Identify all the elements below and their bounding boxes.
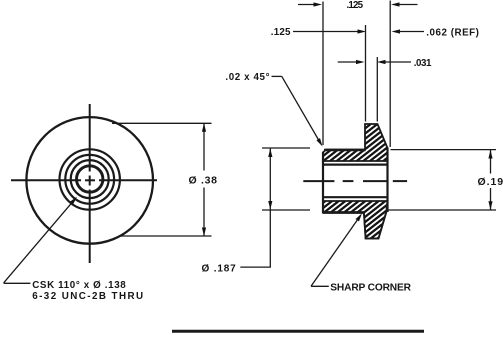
extension line E1 (hub left face) — [322, 2, 324, 146]
Ø.187 bottom extension line — [262, 209, 310, 211]
dimension row3 .031 right arrow+line — [377, 60, 386, 64]
chamfer leader arrowhead — [316, 138, 322, 146]
Ø.19 arrowheads — [488, 150, 492, 159]
svg-text:.031: .031 — [414, 58, 432, 69]
horizontal centerline of front view — [11, 179, 157, 181]
lower flange outline emphasize — [364, 212, 386, 239]
svg-text:.125: .125 — [347, 0, 364, 11]
Ø.38 dimension line — [203, 123, 205, 236]
bottom rule — [172, 330, 424, 333]
svg-text:Ø .187: Ø .187 — [202, 264, 237, 275]
hub left end face — [322, 152, 324, 214]
hatched upper cross-section (flange stem + band) — [323, 124, 388, 161]
Ø.187 arrowheads — [268, 149, 272, 158]
Ø.19 dimension line — [490, 150, 492, 210]
circle D bold (thread minor) — [77, 166, 103, 192]
outer circle (flange OD) — [26, 117, 153, 244]
hub top outer line — [324, 149, 366, 151]
sharp corner leader line — [311, 216, 360, 286]
svg-text:6-32 UNC-2B THRU: 6-32 UNC-2B THRU — [32, 291, 144, 302]
thread line lower B' — [323, 196, 388, 198]
svg-text:CSK 110° x Ø .138: CSK 110° x Ø .138 — [32, 280, 126, 291]
Ø.38 top extension line — [112, 122, 212, 124]
thread line upper B — [323, 164, 388, 166]
Ø.19 bottom extension line — [386, 209, 496, 211]
Ø.38 arrowheads — [202, 123, 206, 132]
circle B (countersink) — [65, 155, 114, 204]
dimension row2 .062 arrow+line — [392, 29, 401, 33]
Ø.187 top extension line — [262, 147, 310, 149]
section view centerline — [303, 180, 407, 182]
dimension row2 line+arrow — [293, 31, 359, 33]
Ø.187 dimension line — [269, 148, 271, 267]
svg-text:Ø .38: Ø .38 — [189, 175, 218, 187]
CSK leader arrowhead — [70, 197, 77, 205]
svg-text:SHARP CORNER: SHARP CORNER — [330, 283, 413, 294]
dimension row1 .125 left line+arrow — [298, 4, 315, 6]
sharp corner arrowhead — [356, 213, 363, 221]
hatched lower cross-section (band + flange stem) — [323, 201, 388, 239]
extension line E2 (flange left face) — [365, 25, 367, 122]
chamfer leader line — [272, 76, 320, 141]
svg-text:Ø.19: Ø.19 — [478, 176, 503, 188]
circle A (hub OD) — [59, 149, 119, 209]
Ø.187 leader to text — [240, 266, 271, 268]
svg-text:.125: .125 — [271, 27, 291, 38]
Ø.19 top extension line — [391, 149, 497, 151]
extension line E4 (flange right edge) — [389, 1, 391, 148]
svg-text:.062 (REF): .062 (REF) — [426, 27, 479, 38]
CSK leader line — [4, 198, 76, 283]
hub bottom outer line — [323, 211, 364, 214]
extension line E3 (flange top flat end) — [376, 57, 378, 122]
vertical centerline of front view — [89, 104, 91, 263]
dimension row1 right arrow+line — [391, 2, 400, 6]
svg-text:.02 x 45°: .02 x 45° — [225, 72, 270, 83]
dimension row3 .031 left line+arrow — [338, 61, 357, 63]
circle C (thread major) — [71, 160, 109, 198]
Ø.38 bottom extension line — [119, 235, 212, 237]
flange right edge — [386, 148, 388, 213]
